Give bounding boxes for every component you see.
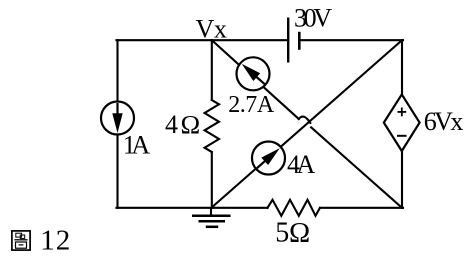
dependent source E 6Vx diamond <box>384 94 420 151</box>
current source I2 2.7A circle <box>237 57 270 90</box>
wire hop over crossing <box>299 117 311 123</box>
wire right vertical upper <box>401 40 403 95</box>
svg-text:4A: 4A <box>287 150 316 179</box>
battery V 30V short plate <box>298 32 301 50</box>
current source I2 2.7A arrow <box>242 64 265 84</box>
ground <box>192 208 231 227</box>
svg-text:1A: 1A <box>123 130 151 159</box>
current source I3 4A circle <box>252 142 285 175</box>
wire diagonal Vx to hop <box>212 40 299 119</box>
resistor R 5ohm zigzag <box>268 200 321 216</box>
svg-text:6Vx: 6Vx <box>424 107 464 136</box>
wire left vertical <box>116 40 118 208</box>
wire node Vx to resistor 4ohm <box>211 40 213 100</box>
battery V 30V long plate <box>287 18 289 63</box>
minus sign of 6Vx <box>397 135 407 137</box>
svg-text:2.7A: 2.7A <box>228 92 275 118</box>
current source I1 1A circle <box>101 102 134 135</box>
svg-text:4: 4 <box>165 110 178 139</box>
wire top-left segment to battery <box>117 39 289 41</box>
svg-text:Ω: Ω <box>181 110 201 140</box>
wire bottom-left segment <box>117 207 268 209</box>
resistor R 4ohm zigzag <box>205 100 219 152</box>
current source I3 4A arrow <box>257 148 280 168</box>
plus sign of 6Vx <box>398 108 407 117</box>
svg-text:Vx: Vx <box>196 14 227 43</box>
svg-text:12: 12 <box>40 224 70 256</box>
wire diagonal top-right corner to ground node <box>211 40 402 208</box>
wire right vertical lower <box>401 150 403 208</box>
wire battery to top-right corner <box>299 39 403 41</box>
label figure character tu <box>12 231 30 250</box>
svg-text:30V: 30V <box>294 4 332 33</box>
wire resistor 4ohm to bottom <box>211 152 213 208</box>
current source I1 1A arrow <box>112 103 122 133</box>
wire bottom-right segment <box>320 207 403 209</box>
svg-text:5: 5 <box>275 218 289 249</box>
wire diagonal hop to bottom-right corner <box>311 127 402 207</box>
svg-text:Ω: Ω <box>289 218 310 249</box>
